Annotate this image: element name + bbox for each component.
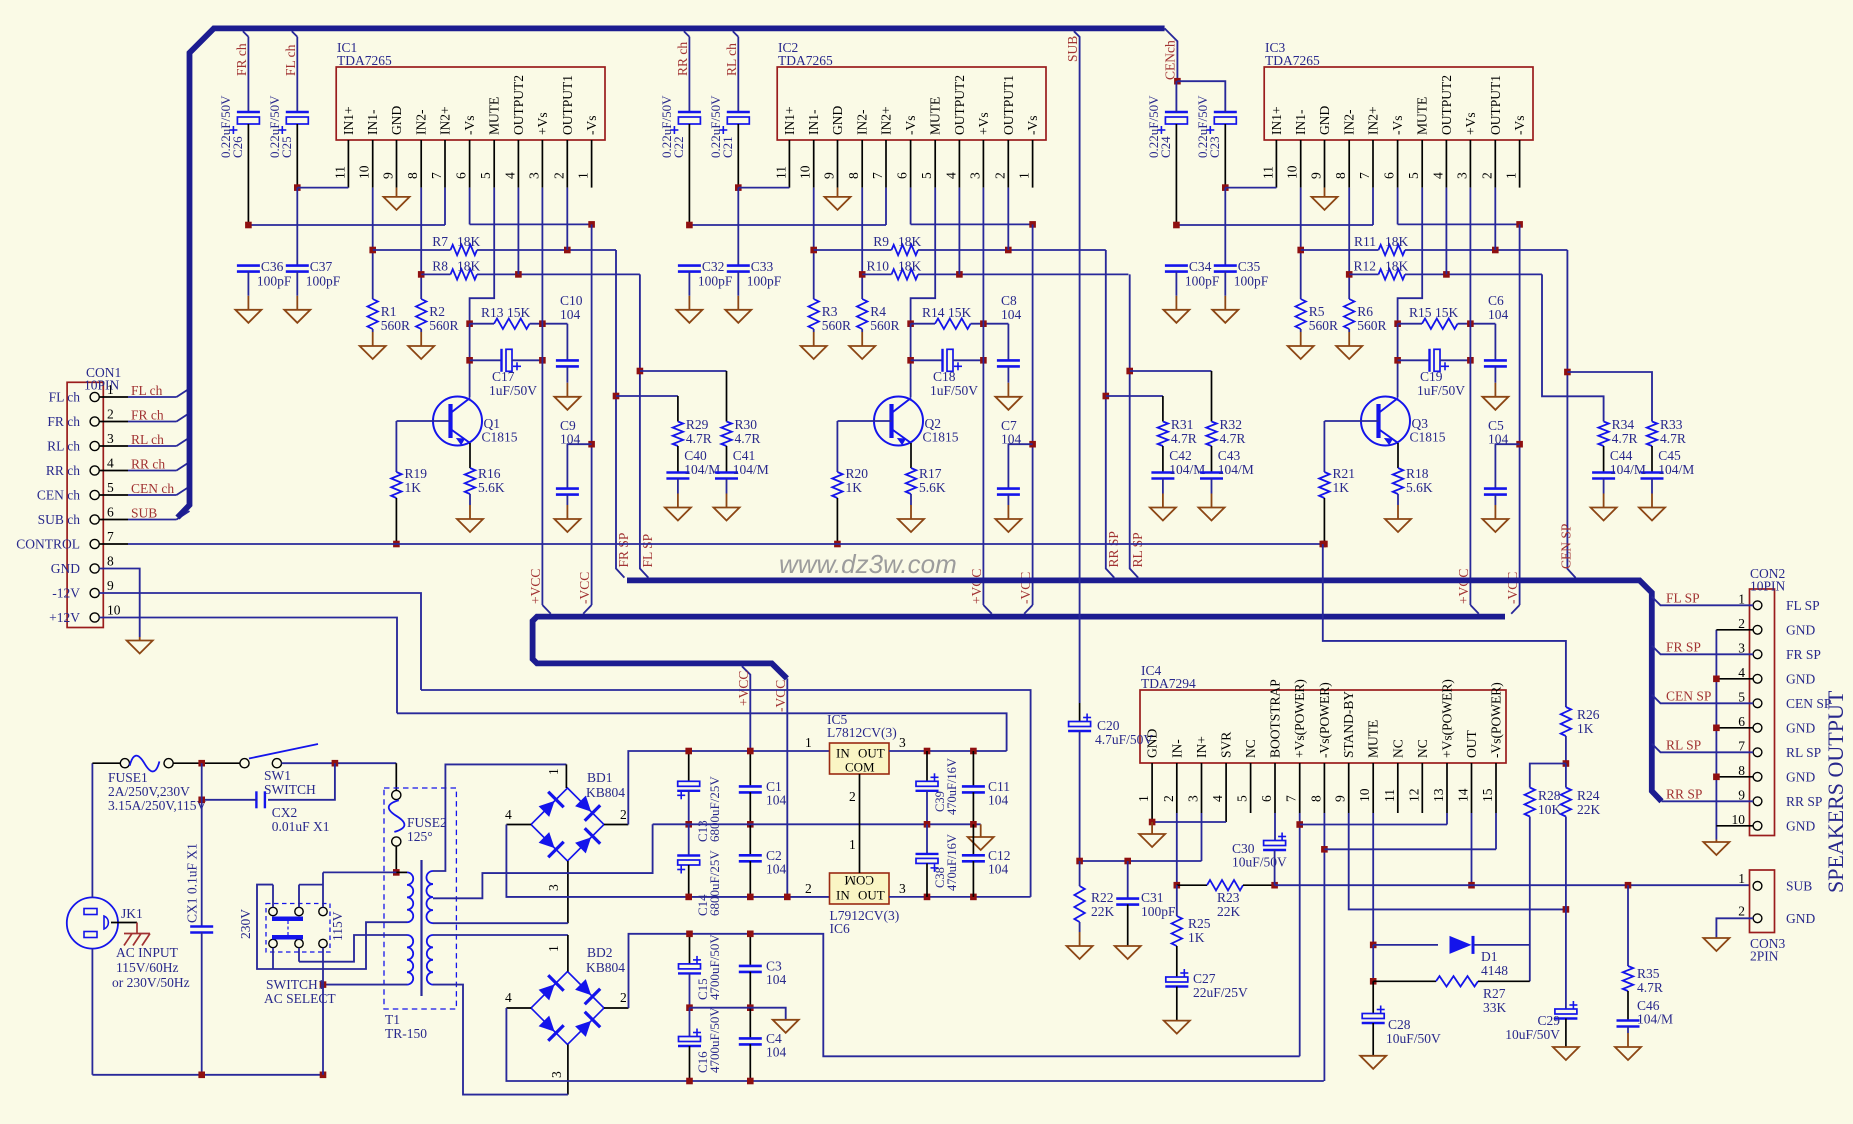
svg-text:2: 2 bbox=[1738, 904, 1745, 919]
node CON2 pin 9 bbox=[1753, 797, 1762, 806]
svg-text:RL SP: RL SP bbox=[1130, 532, 1145, 567]
svg-text:-Vs: -Vs bbox=[903, 116, 918, 136]
connector CON3 2PIN bbox=[1750, 870, 1775, 933]
svg-text:4: 4 bbox=[1210, 795, 1225, 802]
svg-text:13: 13 bbox=[1431, 788, 1446, 802]
op-amp IC2 TDA7265 bbox=[777, 67, 1046, 140]
svg-text:C18: C18 bbox=[933, 369, 956, 384]
wire to C23 bbox=[1177, 81, 1225, 112]
ground bbox=[1494, 366, 1496, 382]
svg-text:BD2: BD2 bbox=[587, 945, 613, 960]
svg-text:CONTROL: CONTROL bbox=[16, 537, 80, 552]
svg-text:1K: 1K bbox=[1577, 721, 1594, 736]
wire pin1 GND + pin4 SVR bbox=[1151, 813, 1153, 822]
svg-text:10: 10 bbox=[1285, 165, 1300, 179]
svg-text:0.01uF X1: 0.01uF X1 bbox=[272, 819, 330, 834]
svg-text:IN2-: IN2- bbox=[855, 109, 870, 135]
earth ground (chassis) bbox=[124, 923, 150, 946]
svg-text:IN+: IN+ bbox=[1194, 736, 1209, 758]
wire -Vs to -VCC tap bbox=[1519, 224, 1521, 605]
node CON2 pin 8 bbox=[1753, 772, 1762, 781]
node CON1 pin 9 bbox=[90, 588, 99, 597]
node CON1 pin 6 bbox=[90, 515, 99, 524]
svg-text:R33: R33 bbox=[1660, 417, 1683, 432]
svg-text:MUTE: MUTE bbox=[1415, 97, 1430, 135]
svg-text:NC: NC bbox=[1390, 739, 1405, 758]
svg-text:33K: 33K bbox=[1483, 1000, 1507, 1015]
svg-text:-Vs(POWER): -Vs(POWER) bbox=[1489, 682, 1504, 758]
svg-text:SPEAKERS OUTPUT: SPEAKERS OUTPUT bbox=[1823, 690, 1848, 893]
svg-text:1: 1 bbox=[546, 945, 561, 952]
svg-text:560R: 560R bbox=[381, 318, 410, 333]
regulator IC5 L7812CV bbox=[830, 743, 890, 774]
svg-text:10: 10 bbox=[1732, 812, 1746, 827]
wire bbox=[247, 124, 249, 225]
svg-text:C24: C24 bbox=[1158, 136, 1173, 158]
svg-text:GND: GND bbox=[1786, 911, 1815, 926]
node CON3 pin2 bbox=[1753, 914, 1762, 923]
svg-text:-VCC: -VCC bbox=[1018, 572, 1033, 604]
svg-text:TR-150: TR-150 bbox=[385, 1026, 427, 1041]
svg-text:560R: 560R bbox=[822, 318, 851, 333]
node CX1 top bbox=[198, 760, 205, 767]
transistor Q2 C1815 bbox=[874, 397, 923, 446]
svg-text:3: 3 bbox=[549, 1071, 564, 1078]
wire BD1 pin4 to -V rail bbox=[506, 824, 531, 826]
wire -12V out rail bbox=[889, 896, 1031, 898]
svg-text:GND: GND bbox=[830, 106, 845, 135]
svg-text:+VCC: +VCC bbox=[969, 569, 984, 604]
capacitor C7 104 bbox=[1008, 444, 1032, 488]
svg-text:RR SP: RR SP bbox=[1106, 531, 1121, 567]
wire -VCC tap bbox=[786, 678, 788, 897]
wire -12V pin9 bbox=[99, 593, 421, 690]
capacitor CX1 0.1uF X1 bbox=[201, 763, 203, 926]
resistor R24 22K bbox=[1561, 788, 1571, 817]
svg-text:COM: COM bbox=[844, 873, 874, 888]
wire RR SP tap bbox=[1662, 800, 1754, 802]
wire CENch from bus bbox=[1165, 28, 1178, 81]
svg-text:10PIN: 10PIN bbox=[84, 378, 120, 393]
connector CON2 10PIN bbox=[1750, 589, 1775, 836]
resistor R28 10K bbox=[1530, 764, 1566, 788]
svg-text:+VCC: +VCC bbox=[1456, 569, 1471, 604]
capacitor C33 100pF bbox=[727, 264, 750, 267]
ground bbox=[566, 366, 568, 382]
svg-text:C42: C42 bbox=[1169, 448, 1192, 463]
svg-text:1: 1 bbox=[546, 768, 561, 775]
svg-text:6: 6 bbox=[895, 172, 910, 179]
svg-text:RR ch: RR ch bbox=[675, 42, 690, 76]
connector CON1 10PIN bbox=[67, 382, 103, 627]
svg-text:7: 7 bbox=[107, 529, 114, 544]
wire -Vs rails bbox=[689, 224, 886, 226]
svg-text:115V: 115V bbox=[330, 911, 345, 941]
resistor R30 4.7R bbox=[721, 422, 731, 447]
svg-text:4: 4 bbox=[107, 456, 114, 471]
svg-text:AC INPUT: AC INPUT bbox=[116, 945, 179, 960]
svg-text:4.7R: 4.7R bbox=[735, 431, 761, 446]
inductor primary upper bbox=[407, 872, 413, 922]
wire secondary upper to BD1 pin1 bbox=[433, 764, 566, 871]
node CON2 pin 3 bbox=[1753, 650, 1762, 659]
svg-text:OUT: OUT bbox=[1464, 730, 1479, 758]
connector JK1 AC INPUT bbox=[67, 897, 118, 948]
resistor R34 4.7R bbox=[1598, 422, 1608, 447]
svg-text:-Vs: -Vs bbox=[462, 116, 477, 136]
capacitor C35 100pF bbox=[1214, 264, 1237, 267]
svg-text:560R: 560R bbox=[1309, 318, 1338, 333]
node CON2 pin 4 bbox=[1753, 674, 1762, 683]
svg-text:www.dz3w.com: www.dz3w.com bbox=[779, 549, 957, 579]
wire IN- bbox=[1176, 813, 1178, 885]
svg-text:FL ch: FL ch bbox=[283, 44, 298, 76]
wire input signal bus (thick) bbox=[178, 28, 1165, 517]
wire FR SP tap bbox=[1652, 646, 1753, 655]
svg-text:8: 8 bbox=[1333, 172, 1348, 179]
svg-text:R12: R12 bbox=[1353, 259, 1376, 274]
resistor R13 15K bbox=[470, 188, 495, 322]
node CON2 pin 5 bbox=[1753, 699, 1762, 708]
svg-text:NC: NC bbox=[1243, 739, 1258, 758]
ground BD2 0V bbox=[773, 1020, 799, 1033]
svg-text:6: 6 bbox=[454, 172, 469, 179]
svg-text:SUB: SUB bbox=[1786, 879, 1812, 894]
ground bbox=[1224, 272, 1226, 296]
node CON1 pin 7 bbox=[90, 539, 99, 548]
svg-text:FR ch: FR ch bbox=[47, 414, 80, 429]
capacitor C13 6800uF/25V bbox=[688, 751, 690, 781]
wire GND pin8 bbox=[99, 569, 139, 638]
wire sw pin5 bbox=[298, 948, 300, 962]
svg-text:C33: C33 bbox=[751, 259, 774, 274]
svg-text:11: 11 bbox=[332, 166, 347, 179]
resistor R31 4.7R bbox=[1158, 422, 1168, 447]
regulator IC6 L7912CV bbox=[830, 873, 890, 904]
capacitor C25 0.22uF/50V bbox=[292, 31, 298, 37]
resistor R20 1K bbox=[836, 421, 838, 472]
svg-text:5: 5 bbox=[919, 172, 934, 179]
svg-text:5.6K: 5.6K bbox=[919, 480, 946, 495]
wire IC6 COM bbox=[859, 824, 861, 873]
ground IC4 bbox=[1151, 821, 1153, 823]
capacitor C34 100pF bbox=[1165, 264, 1188, 267]
svg-text:4.7uF/50V: 4.7uF/50V bbox=[1095, 732, 1153, 747]
svg-text:5: 5 bbox=[478, 172, 493, 179]
svg-text:OUT: OUT bbox=[858, 746, 885, 761]
svg-text:6: 6 bbox=[1259, 795, 1274, 802]
svg-text:R4: R4 bbox=[870, 304, 886, 319]
capacitor C5 104 bbox=[1495, 444, 1519, 488]
wire to R33 bbox=[1567, 372, 1652, 422]
svg-text:-VCC: -VCC bbox=[577, 572, 592, 604]
svg-text:C45: C45 bbox=[1658, 448, 1681, 463]
svg-text:1: 1 bbox=[576, 172, 591, 179]
capacitor C2 104 bbox=[749, 824, 751, 855]
resistor R9 18K bbox=[813, 188, 815, 299]
svg-text:IN2-: IN2- bbox=[1342, 109, 1357, 135]
wire mute RC bbox=[1529, 909, 1531, 981]
svg-text:RR ch: RR ch bbox=[46, 463, 80, 478]
wire OUTPUT2 to speaker tap bbox=[1130, 274, 1138, 577]
svg-text:RR SP: RR SP bbox=[1786, 794, 1822, 809]
svg-text:1: 1 bbox=[1136, 795, 1151, 802]
svg-text:C26: C26 bbox=[230, 136, 245, 158]
wire CON3 gnd bbox=[1716, 918, 1753, 938]
svg-text:-VCC: -VCC bbox=[1505, 572, 1520, 604]
capacitor C3 104 bbox=[749, 934, 751, 966]
svg-text:TDA7265: TDA7265 bbox=[778, 53, 833, 68]
svg-text:R31: R31 bbox=[1171, 417, 1194, 432]
ground bbox=[1494, 495, 1496, 505]
node CON1 pin 5 bbox=[90, 490, 99, 499]
capacitor C9 104 bbox=[567, 444, 591, 488]
svg-text:230V: 230V bbox=[238, 909, 253, 939]
wire STAND-BY pin9 bbox=[1349, 813, 1566, 909]
svg-text:R14: R14 bbox=[922, 305, 945, 320]
svg-text:R7: R7 bbox=[432, 234, 448, 249]
capacitor C37 100pF bbox=[286, 264, 309, 267]
svg-text:R30: R30 bbox=[735, 417, 758, 432]
svg-text:R11: R11 bbox=[1354, 234, 1376, 249]
svg-text:104: 104 bbox=[1001, 432, 1022, 447]
resistor R15 15K bbox=[1398, 188, 1423, 322]
resistor R3 560R bbox=[809, 299, 819, 329]
svg-text:6800uF/25V: 6800uF/25V bbox=[707, 850, 722, 916]
ground main 0V bbox=[980, 823, 982, 825]
switch SWITCH1 AC SELECT bbox=[266, 904, 330, 953]
svg-text:-12V: -12V bbox=[52, 586, 80, 601]
capacitor C18 1uF/50V bbox=[910, 324, 912, 398]
svg-text:NC: NC bbox=[1415, 739, 1430, 758]
inductor primary lower bbox=[407, 935, 413, 985]
svg-text:R27: R27 bbox=[1483, 986, 1506, 1001]
svg-text:5: 5 bbox=[1406, 172, 1421, 179]
capacitor C21 0.22uF/50V bbox=[733, 31, 739, 37]
node CON1 pin 8 bbox=[90, 564, 99, 573]
svg-text:RL SP: RL SP bbox=[1786, 745, 1821, 760]
svg-text:1uF/50V: 1uF/50V bbox=[489, 383, 537, 398]
svg-text:FUSE1: FUSE1 bbox=[108, 770, 148, 785]
svg-text:SUB: SUB bbox=[131, 506, 157, 521]
svg-text:RL SP: RL SP bbox=[1666, 737, 1701, 752]
capacitor C14 6800uF/25V bbox=[688, 824, 690, 855]
op-amp IC1 TDA7265 bbox=[336, 67, 605, 140]
svg-text:10uF/50V: 10uF/50V bbox=[1505, 1027, 1560, 1042]
svg-text:3: 3 bbox=[107, 431, 114, 446]
svg-text:C35: C35 bbox=[1238, 259, 1261, 274]
svg-text:SUB: SUB bbox=[1065, 36, 1080, 62]
wire CON2 grounds bbox=[1715, 630, 1717, 840]
capacitor C26 0.22uF/50V bbox=[243, 31, 249, 37]
svg-text:4148: 4148 bbox=[1481, 963, 1508, 978]
svg-text:COM: COM bbox=[845, 760, 875, 775]
svg-text:22uF/25V: 22uF/25V bbox=[1193, 985, 1248, 1000]
node CON3 pin1 bbox=[1753, 882, 1762, 891]
svg-text:RR SP: RR SP bbox=[1666, 786, 1702, 801]
svg-text:100pF: 100pF bbox=[698, 274, 733, 289]
svg-text:4: 4 bbox=[502, 172, 517, 179]
svg-text:18K: 18K bbox=[1385, 259, 1409, 274]
capacitor C6 104 bbox=[1494, 324, 1496, 361]
svg-text:TDA7265: TDA7265 bbox=[1265, 53, 1320, 68]
svg-text:+Vs: +Vs bbox=[976, 112, 991, 135]
svg-text:9: 9 bbox=[1333, 795, 1348, 802]
svg-text:1: 1 bbox=[1504, 172, 1519, 179]
svg-text:MUTE: MUTE bbox=[487, 97, 502, 135]
wire MUTE pin10 bbox=[1372, 813, 1374, 945]
svg-text:18K: 18K bbox=[457, 234, 481, 249]
svg-text:18K: 18K bbox=[457, 259, 481, 274]
svg-text:2: 2 bbox=[849, 789, 856, 804]
svg-text:FL SP: FL SP bbox=[1666, 590, 1700, 605]
wire to AC return bbox=[322, 985, 324, 1075]
svg-text:C17: C17 bbox=[492, 369, 515, 384]
capacitor C41 104/M bbox=[726, 446, 728, 473]
wire primary lower bottom bbox=[323, 984, 407, 986]
capacitor CX2 0.01uF X1 bbox=[268, 763, 335, 800]
ground bbox=[1007, 366, 1009, 382]
wire sw pin2 bbox=[298, 885, 300, 908]
ground bbox=[1211, 479, 1213, 494]
svg-text:R13: R13 bbox=[481, 305, 504, 320]
wire fuse to switch bbox=[173, 762, 240, 764]
svg-text:470uF/16V: 470uF/16V bbox=[945, 834, 959, 891]
svg-text:104: 104 bbox=[766, 1045, 787, 1060]
svg-text:IN: IN bbox=[836, 888, 850, 903]
capacitor C19 1uF/50V bbox=[1397, 324, 1399, 398]
svg-text:3.15A/250V,115V: 3.15A/250V,115V bbox=[108, 798, 207, 813]
svg-text:OUTPUT1: OUTPUT1 bbox=[1001, 75, 1016, 135]
svg-text:CX2: CX2 bbox=[272, 805, 298, 820]
svg-text:-Vs: -Vs bbox=[584, 116, 599, 136]
svg-text:R9: R9 bbox=[873, 234, 889, 249]
node CENch bbox=[1174, 78, 1181, 85]
svg-text:11: 11 bbox=[1260, 166, 1275, 179]
svg-text:2: 2 bbox=[992, 172, 1007, 179]
resistor R33 4.7R bbox=[1647, 422, 1657, 447]
svg-text:5.6K: 5.6K bbox=[1406, 480, 1433, 495]
wire -Vs rails bbox=[1176, 224, 1373, 226]
svg-text:+Vs: +Vs bbox=[535, 112, 550, 135]
svg-text:4.7R: 4.7R bbox=[1660, 431, 1686, 446]
node CON2 pin 10 bbox=[1753, 821, 1762, 830]
wire select bar 115V bbox=[272, 935, 303, 940]
wire BD2 pin3 bbox=[567, 1045, 569, 1095]
node CON1 pin 10 bbox=[90, 613, 99, 622]
svg-text:104: 104 bbox=[766, 862, 787, 877]
resistor R32 4.7R bbox=[1206, 422, 1216, 447]
svg-text:GND: GND bbox=[389, 106, 404, 135]
wire OUTPUT1 to speaker tap bbox=[1106, 250, 1114, 578]
resistor R4 560R bbox=[857, 299, 867, 329]
resistor R25 1K bbox=[1176, 885, 1178, 916]
svg-text:10PIN: 10PIN bbox=[1750, 579, 1786, 594]
op-amp IC4 TDA7294 bbox=[1140, 690, 1506, 763]
svg-text:6: 6 bbox=[107, 505, 114, 520]
op-amp IC3 TDA7265 bbox=[1264, 67, 1533, 140]
svg-text:OUTPUT2: OUTPUT2 bbox=[1439, 75, 1454, 135]
node CON1 pin 3 bbox=[90, 441, 99, 450]
svg-text:C21: C21 bbox=[720, 136, 735, 158]
svg-text:D1: D1 bbox=[1481, 949, 1498, 964]
svg-text:R6: R6 bbox=[1357, 304, 1373, 319]
svg-text:FR SP: FR SP bbox=[1666, 639, 1701, 654]
svg-text:C27: C27 bbox=[1193, 971, 1216, 986]
svg-text:R8: R8 bbox=[432, 259, 448, 274]
capacitor C38 470uF/16V bbox=[926, 824, 928, 854]
capacitor C32 100pF bbox=[678, 264, 701, 267]
svg-text:100pF: 100pF bbox=[1185, 274, 1220, 289]
svg-text:10: 10 bbox=[107, 603, 121, 618]
wire IN+ bbox=[1201, 813, 1203, 861]
transformer T1 TR-150 bbox=[384, 788, 456, 1009]
svg-text:IC6: IC6 bbox=[830, 921, 851, 936]
wire RL SP tap bbox=[1652, 744, 1753, 753]
svg-text:R32: R32 bbox=[1220, 417, 1243, 432]
svg-text:SW1: SW1 bbox=[264, 768, 291, 783]
transistor Q1 C1815 bbox=[433, 397, 482, 446]
inductor secondary upper bbox=[426, 871, 433, 923]
node CON1 pin 4 bbox=[90, 466, 99, 475]
node CON1 pin 2 bbox=[90, 417, 99, 426]
resistor R1 560R bbox=[368, 299, 378, 329]
svg-text:14: 14 bbox=[1456, 788, 1471, 802]
svg-text:+VCC: +VCC bbox=[736, 671, 751, 706]
svg-text:104/M: 104/M bbox=[1610, 462, 1646, 477]
capacitor C30 10uF/50V (bootstrap) bbox=[1274, 813, 1276, 841]
svg-text:OUTPUT2: OUTPUT2 bbox=[952, 75, 967, 135]
wire speaker bus (thick) bbox=[627, 580, 1662, 801]
capacitor C46 104/M bbox=[1627, 991, 1629, 1021]
capacitor C10 104 bbox=[566, 324, 568, 361]
svg-text:FR ch: FR ch bbox=[234, 43, 249, 76]
svg-text:C37: C37 bbox=[310, 259, 333, 274]
svg-text:KB804: KB804 bbox=[586, 785, 625, 800]
wire +Vs pins 7,13 bbox=[1299, 813, 1301, 1056]
svg-text:560R: 560R bbox=[870, 318, 899, 333]
wire +Vs to +VCC tap bbox=[1469, 188, 1471, 605]
svg-text:18K: 18K bbox=[898, 259, 922, 274]
svg-text:6: 6 bbox=[1738, 714, 1745, 729]
svg-text:104: 104 bbox=[988, 862, 1009, 877]
bridge rectifier BD2 KB804 bbox=[531, 972, 604, 1045]
svg-text:C31: C31 bbox=[1141, 890, 1164, 905]
svg-text:560R: 560R bbox=[429, 318, 458, 333]
svg-text:R5: R5 bbox=[1309, 304, 1325, 319]
svg-text:FR ch: FR ch bbox=[131, 408, 164, 423]
svg-text:IN-: IN- bbox=[1169, 739, 1184, 758]
bridge rectifier BD1 KB804 bbox=[531, 788, 604, 861]
node control/standby bbox=[1320, 541, 1327, 548]
svg-text:104: 104 bbox=[1488, 432, 1509, 447]
svg-text:3: 3 bbox=[967, 172, 982, 179]
svg-text:C28: C28 bbox=[1388, 1017, 1411, 1032]
ground C46 bbox=[1627, 1027, 1629, 1034]
wire ch3 OUTPUT2 to R34 bbox=[1542, 274, 1604, 421]
svg-text:4.7R: 4.7R bbox=[1612, 431, 1638, 446]
node CX2 branch bbox=[332, 760, 339, 767]
svg-text:104/M: 104/M bbox=[1637, 1012, 1673, 1027]
resistor R23 22K bbox=[1177, 884, 1207, 886]
capacitor C27 22uF/25V bbox=[1176, 946, 1178, 977]
svg-text:GND: GND bbox=[51, 561, 80, 576]
svg-text:+Vs(POWER): +Vs(POWER) bbox=[1292, 679, 1307, 758]
capacitor C44 104/M bbox=[1603, 446, 1605, 473]
ground bbox=[688, 272, 690, 296]
resistor R5 560R bbox=[1296, 299, 1306, 329]
svg-text:CX1 0.1uF X1: CX1 0.1uF X1 bbox=[185, 843, 200, 923]
